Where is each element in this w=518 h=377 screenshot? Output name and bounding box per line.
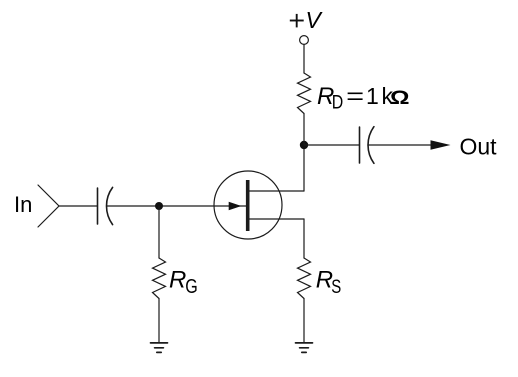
svg-text:=: = [346,83,364,109]
ground (RG) [151,343,168,353]
wire drain up to output node [303,145,305,191]
transistor Q1 gate arrowhead [229,202,242,210]
svg-text:Ω: Ω [390,87,410,109]
wire RG to ground [158,299,160,343]
svg-text:V: V [306,7,324,33]
resistor RD [298,73,311,114]
svg-text:S: S [331,276,341,298]
transistor Q1 JFET circle [214,171,282,239]
node Out label [460,134,498,160]
input source chevron [38,185,59,227]
svg-text:Out: Out [460,134,498,160]
node gate junction dot [155,202,163,210]
node drain junction dot [300,141,308,149]
wire C2 to Out arrow [368,144,432,146]
svg-text:In: In [14,192,32,217]
wire In chevron to capacitor C1 [59,205,98,207]
wire RS to ground [303,299,305,343]
label RS [316,267,342,299]
wire RD up to +V terminal [303,45,305,74]
label RD = 1 kOhm [317,83,410,113]
transistor Q1 drain lead [248,190,304,192]
resistor RS [298,258,311,299]
node In label [14,192,32,217]
resistor RG [153,258,166,299]
ground (RS) [296,343,313,353]
wire node up to RD [303,114,305,146]
wire source down to RS [303,219,305,258]
label RG [169,267,198,299]
+V terminal circle [300,36,309,45]
Out arrowhead [431,140,451,150]
transistor Q1 channel bar [246,180,250,231]
capacitor C1 (input coupling) [98,187,113,224]
svg-text:G: G [185,276,198,298]
svg-text:1: 1 [366,83,379,109]
wire gate node down to RG [158,206,160,258]
wire node to capacitor C2 [304,144,360,146]
svg-text:D: D [332,91,344,113]
wire C1 to gate node [107,205,246,207]
label +V [290,7,324,33]
svg-text:R: R [169,267,186,294]
transistor Q1 source lead [248,218,304,220]
capacitor C2 (output coupling) [360,127,374,164]
